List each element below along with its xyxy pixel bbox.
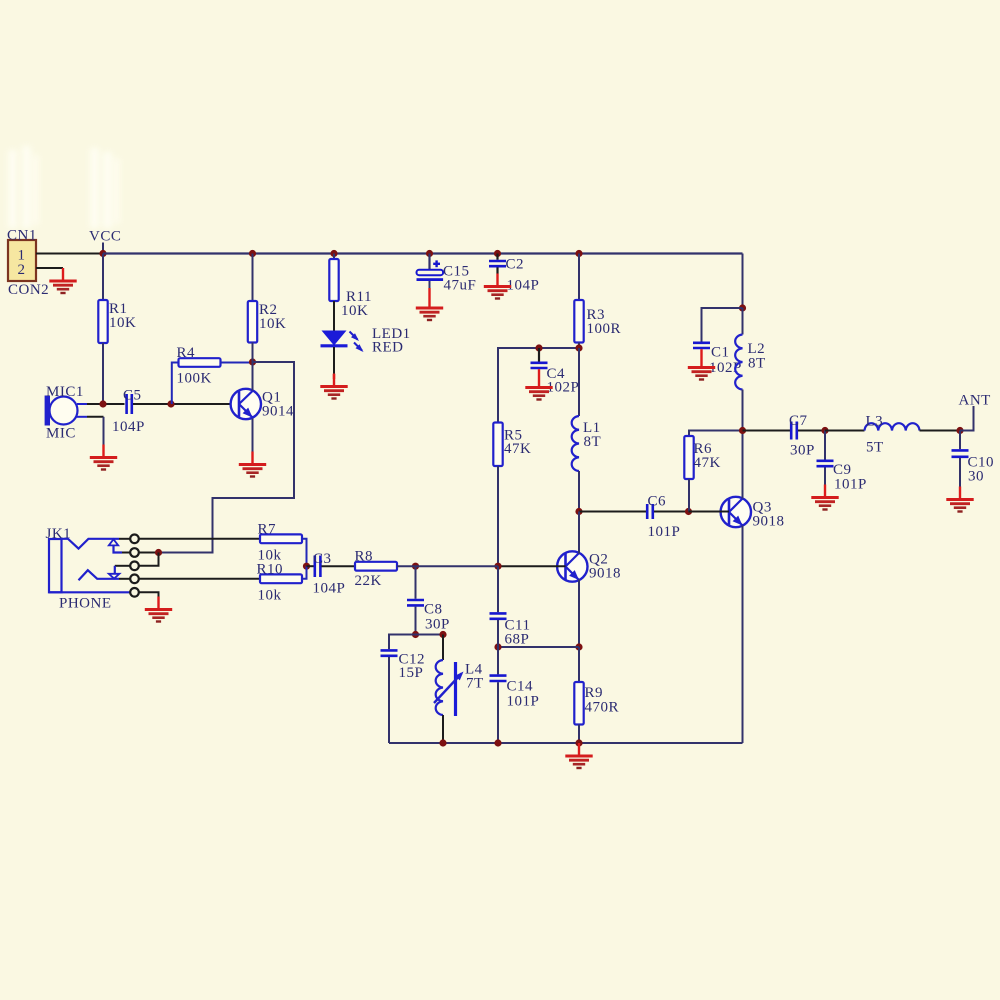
svg-text:47uF: 47uF: [444, 278, 477, 294]
ground C9: [811, 485, 838, 510]
wire bottom rail: [389, 742, 743, 744]
junction L2/R6/C7/Q3 collector: [739, 427, 746, 434]
wire Q2 collector: [578, 512, 580, 554]
svg-text:100K: 100K: [177, 371, 212, 387]
svg-text:R8: R8: [355, 549, 374, 565]
svg-text:8T: 8T: [748, 356, 766, 372]
junction C8/C12: [412, 631, 419, 638]
wire rail drop to L2 column: [742, 254, 744, 309]
node ANT: [959, 393, 991, 431]
junction Q2 emitter/R9: [575, 643, 582, 650]
capacitor C8: [407, 566, 450, 634]
svg-text:MIC1: MIC1: [46, 384, 84, 400]
svg-text:10K: 10K: [259, 316, 286, 332]
ground C1: [688, 355, 715, 380]
svg-text:101P: 101P: [507, 694, 540, 710]
svg-text:CON2: CON2: [8, 282, 49, 298]
capacitor C14: [490, 647, 540, 743]
wire Q3 emitter to bottom rail: [742, 526, 744, 744]
transistor Q3: [721, 497, 785, 530]
capacitor C12: [381, 635, 426, 744]
wire Q2 base: [498, 565, 566, 567]
junction R11 top: [330, 250, 337, 257]
wire MIC bottom lead to ground: [87, 417, 104, 445]
resistor R6: [684, 431, 742, 512]
svg-text:VCC: VCC: [89, 229, 121, 245]
junction L1/C6/Q2 collector: [575, 508, 582, 515]
svg-text:C7: C7: [789, 413, 808, 429]
svg-text:30P: 30P: [790, 443, 815, 459]
wire LED to ground: [333, 347, 335, 379]
LED LED1: [321, 326, 411, 356]
svg-text:104P: 104P: [507, 278, 540, 294]
junction R5/C11/Q2 base: [494, 563, 501, 570]
svg-text:C3: C3: [313, 551, 332, 567]
jack ring contact: [79, 570, 131, 580]
svg-text:CN1: CN1: [7, 228, 37, 244]
inductor L3: [825, 414, 960, 456]
resistor R4: [172, 345, 253, 404]
svg-text:9018: 9018: [753, 514, 785, 530]
svg-text:101P: 101P: [834, 477, 867, 493]
junction L3/C10/ANT: [956, 427, 963, 434]
junction R2/R4/feedback: [249, 358, 256, 365]
microphone MIC1: [45, 384, 87, 442]
jack tip contact: [62, 539, 131, 549]
ground PHONE: [145, 597, 172, 622]
wire Q2 emitter: [578, 580, 580, 648]
svg-text:30: 30: [968, 469, 984, 485]
junction L2 top / C1 tap: [739, 304, 746, 311]
svg-text:C6: C6: [648, 494, 667, 510]
capacitor C15: [417, 254, 477, 296]
capacitor C3: [307, 551, 346, 597]
ground bottom rail: [565, 743, 592, 768]
svg-text:15P: 15P: [399, 665, 424, 681]
resistor R1: [98, 254, 136, 405]
jack pin 4: [130, 575, 139, 584]
wire pin5 to ground: [139, 592, 159, 597]
svg-text:8T: 8T: [584, 434, 602, 450]
svg-text:5T: 5T: [866, 440, 884, 456]
wire C8 node to L4: [416, 634, 444, 636]
jack ring switch triangle: [109, 566, 130, 579]
wire C5 to Q1 base: [133, 403, 236, 405]
capacitor C9: [817, 431, 867, 493]
svg-text:10K: 10K: [109, 315, 136, 331]
junction R7/R10/C3: [303, 563, 310, 570]
transistor Q2: [557, 551, 621, 581]
capacitor C1: [693, 308, 743, 376]
inductor L4: [434, 635, 484, 744]
wire Q1 collector: [252, 362, 254, 391]
wire C11 to R9 row: [498, 646, 579, 648]
svg-text:68P: 68P: [505, 632, 530, 648]
junction VCC: [99, 250, 106, 257]
wire R8 node to Q2 base node: [416, 565, 499, 567]
junction C5/R4: [167, 400, 174, 407]
wire Q3 base: [689, 511, 730, 513]
junction C4 tap: [535, 344, 542, 351]
junction MIC/R1/C5: [99, 400, 106, 407]
resistor R2: [248, 254, 287, 363]
ground CON2: [49, 268, 76, 293]
svg-text:2: 2: [18, 262, 26, 278]
junction C7/C9/L3: [821, 427, 828, 434]
svg-text:47K: 47K: [694, 455, 721, 471]
resistor R8: [322, 549, 416, 590]
capacitor C5: [112, 388, 145, 436]
svg-text:C1: C1: [711, 345, 730, 361]
junction C11/C14: [494, 643, 501, 650]
svg-text:R7: R7: [258, 522, 277, 538]
svg-text:101P: 101P: [648, 524, 681, 540]
capacitor C6: [579, 494, 689, 541]
ground Q1: [239, 452, 266, 477]
junction R8/C8: [412, 563, 419, 570]
wire pin2 to node: [139, 552, 159, 554]
wire Q3 collector: [742, 431, 744, 499]
svg-text:104P: 104P: [313, 581, 346, 597]
junction C15 top: [426, 250, 433, 257]
ground LED1: [320, 374, 347, 399]
resistor R9: [574, 647, 619, 743]
wire CN1 pin2: [36, 267, 63, 269]
ground C10: [946, 487, 973, 512]
svg-text:47K: 47K: [504, 441, 531, 457]
junction R3 top: [575, 250, 582, 257]
inductor L2: [735, 308, 765, 431]
resistor R11: [329, 254, 372, 331]
capacitor C4: [531, 348, 580, 396]
svg-text:R4: R4: [177, 345, 196, 361]
connector CN1: [7, 228, 49, 299]
svg-text:7T: 7T: [466, 676, 484, 692]
svg-text:C14: C14: [507, 679, 534, 695]
resistor R7: [139, 522, 307, 567]
wire VCC power rail: [103, 252, 743, 254]
junction R3/L1: [575, 344, 582, 351]
junction R9 bottom: [575, 739, 582, 746]
wire CN1 pin1 to VCC: [36, 253, 103, 255]
svg-text:MIC: MIC: [46, 426, 76, 442]
wire R5 to Q2 base: [497, 466, 499, 566]
jack sleeve contact: [49, 591, 130, 593]
connector JK1 body: [46, 526, 112, 612]
junction feedback/pin2/pin3: [155, 549, 162, 556]
junction L4 top: [439, 631, 446, 638]
svg-text:100R: 100R: [587, 321, 622, 337]
resistor R5: [493, 423, 531, 467]
ground C15: [416, 295, 443, 320]
junction C2 top: [494, 250, 501, 257]
svg-text:ANT: ANT: [959, 393, 991, 409]
inductor L1: [572, 348, 601, 512]
svg-text:30P: 30P: [425, 617, 450, 633]
svg-text:9014: 9014: [262, 404, 294, 420]
transistor Q1: [231, 389, 294, 420]
resistor R10: [139, 562, 307, 604]
wire MIC top lead: [87, 403, 125, 405]
junction C14 bottom: [494, 739, 501, 746]
capacitor C7: [743, 413, 826, 459]
junction L4 bottom: [439, 739, 446, 746]
svg-text:C5: C5: [123, 388, 142, 404]
wire Q1 emitter: [252, 419, 254, 452]
svg-text:22K: 22K: [355, 573, 382, 589]
wire C4 row and R5 drop: [498, 348, 579, 423]
svg-text:L3: L3: [866, 414, 884, 430]
svg-text:104P: 104P: [112, 419, 145, 435]
svg-text:R10: R10: [257, 562, 284, 578]
wire feedback to JK1: [159, 362, 295, 553]
resistor R3: [574, 254, 621, 349]
node VCC: [89, 229, 121, 254]
ground C4: [525, 375, 552, 400]
capacitor C2: [489, 254, 539, 294]
capacitor C11: [490, 566, 531, 647]
svg-text:PHONE: PHONE: [59, 596, 112, 612]
junction C6/R6/Q3 base: [685, 508, 692, 515]
wire pin3 to pin2 node: [139, 553, 159, 566]
jack pin 2: [130, 548, 139, 557]
svg-text:C8: C8: [424, 602, 443, 618]
svg-text:10k: 10k: [258, 588, 282, 604]
jack pin 5: [130, 588, 139, 597]
svg-text:9018: 9018: [589, 566, 621, 582]
svg-text:10K: 10K: [341, 303, 368, 319]
capacitor C10: [952, 431, 995, 487]
jack pin 3: [130, 562, 139, 571]
svg-text:RED: RED: [372, 340, 404, 356]
svg-text:470R: 470R: [585, 700, 620, 716]
jack tip switch triangle: [109, 539, 130, 552]
svg-text:C2: C2: [506, 257, 525, 273]
junction R2 top: [249, 250, 256, 257]
ground C2: [484, 274, 511, 299]
ground MIC: [90, 445, 117, 470]
jack pin 1: [130, 535, 139, 544]
